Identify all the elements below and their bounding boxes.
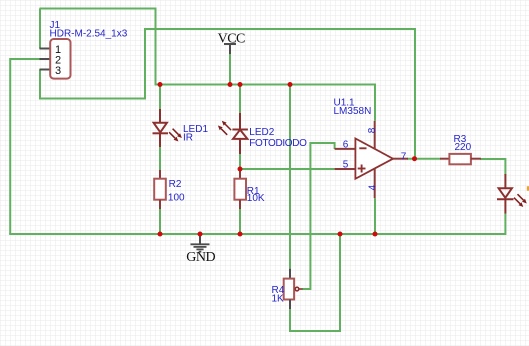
wire J1 pin2 to left rail [10, 59, 40, 234]
connector J1 [40, 39, 71, 79]
node VCC-LED1 [158, 82, 163, 87]
svg-text:1K: 1K [272, 293, 285, 304]
wire VCC rail to R4 top [289, 85, 291, 269]
LED3 (output indicator) [497, 174, 514, 214]
svg-text:HDR-M-2.54_1x3: HDR-M-2.54_1x3 [50, 29, 128, 40]
svg-text:6: 6 [343, 140, 349, 151]
svg-text:R2: R2 [169, 179, 182, 190]
wire op-amp pin4 to ground rail [374, 198, 376, 234]
wire VCC symbol drop [229, 54, 231, 85]
wire R4 bottom loop to ground rail [290, 234, 340, 331]
wire VCC top rail J1 pin1 to corner [40, 9, 156, 85]
wire LED1 to R2 [159, 147, 161, 171]
LED2 (photodiode) [232, 113, 248, 154]
wire op-amp output to R3 [407, 158, 441, 160]
svg-text:7: 7 [401, 151, 407, 162]
wire LED3 to ground rail [500, 213, 505, 234]
arrows LED1 emission [169, 129, 182, 142]
wire J1 pin3 to op-amp output loop [40, 29, 415, 159]
svg-text:100: 100 [168, 193, 185, 204]
node VCC-LED2 [238, 82, 243, 87]
svg-text:VCC: VCC [218, 31, 245, 46]
arrows LED2 incoming light [218, 121, 231, 135]
wire R1 to ground rail [239, 209, 241, 235]
node A LED2-R1 [238, 167, 243, 172]
svg-text:GND: GND [186, 250, 215, 265]
potentiometer R4 [284, 269, 303, 310]
node output [412, 156, 417, 161]
ground GND [186, 234, 215, 265]
svg-text:4: 4 [367, 184, 378, 190]
label fragment (clipped at edge) [527, 186, 529, 191]
node gnd pin4 [373, 232, 378, 237]
wire node A to op-amp pin5 [240, 168, 335, 170]
node gnd R2 [158, 232, 163, 237]
svg-text:10K: 10K [247, 193, 265, 204]
node gnd R1 [238, 232, 243, 237]
LED1 (IR emitter) [153, 109, 169, 147]
resistor R3 [440, 154, 481, 164]
wire R3 to LED3 [480, 159, 505, 175]
svg-text:FOTODIODO: FOTODIODO [249, 138, 307, 149]
arrows LED3 emission [514, 194, 527, 207]
node gnd symbol [198, 232, 203, 237]
resistor R2 [154, 170, 166, 209]
svg-text:5: 5 [343, 160, 349, 171]
node VCC symbol [228, 82, 233, 87]
op-amp U1 [335, 121, 408, 198]
svg-text:8: 8 [367, 127, 378, 133]
svg-text:LED2: LED2 [249, 127, 274, 138]
svg-text:IR: IR [183, 133, 193, 144]
svg-text:220: 220 [455, 142, 472, 153]
resistor R1 [234, 170, 246, 209]
wire bottom ground rail [9, 233, 505, 235]
wire R2 to ground rail [159, 209, 161, 235]
node VCC-R4 [288, 82, 293, 87]
wire VCC horizontal rail [155, 85, 376, 121]
wire VCC to LED2 [239, 85, 241, 114]
wire LED2 to node A [239, 154, 241, 171]
power VCC [218, 31, 245, 54]
wire J1 pin1 drop [39, 9, 41, 49]
svg-text:LM358N: LM358N [334, 106, 372, 117]
wire node VCC to LED1 [159, 85, 161, 110]
wire R4 wiper to op-amp pin6 [302, 143, 335, 289]
svg-text:3: 3 [55, 65, 61, 77]
junction dots [158, 82, 418, 237]
node gnd R4 loop [338, 232, 343, 237]
